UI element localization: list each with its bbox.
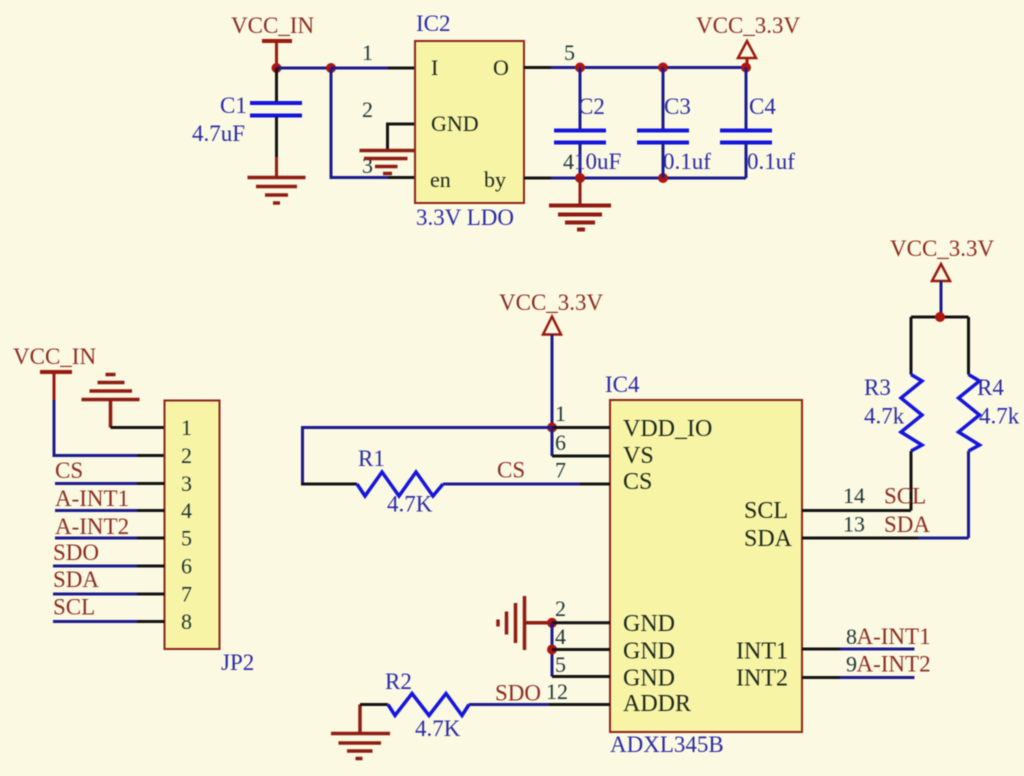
pin number 9 — [846, 652, 857, 677]
wire pin 1 of JP2 — [111, 426, 165, 429]
resistor R2 — [385, 669, 469, 741]
junction — [547, 618, 557, 628]
svg-text:JP2: JP2 — [221, 650, 254, 675]
capacitor C3 — [637, 68, 711, 179]
junction — [575, 63, 585, 73]
label ADXL345B — [610, 732, 724, 757]
svg-text:SDA: SDA — [53, 567, 99, 592]
wire — [469, 703, 549, 706]
wire — [330, 68, 333, 179]
wire pin 2 of IC2 — [388, 124, 416, 149]
junction — [547, 423, 557, 433]
svg-text:6: 6 — [555, 430, 566, 455]
svg-text:C2: C2 — [578, 94, 605, 119]
svg-text:GND: GND — [623, 611, 675, 637]
net label SCL — [53, 595, 95, 620]
svg-text:4: 4 — [181, 498, 192, 523]
svg-text:8: 8 — [846, 624, 857, 649]
junction — [547, 645, 557, 655]
wire pin 8 of JP2 — [53, 620, 165, 623]
svg-text:7: 7 — [181, 582, 192, 607]
svg-text:I: I — [431, 55, 438, 80]
wire pin 1 of IC4 — [552, 426, 610, 429]
svg-text:0.1uf: 0.1uf — [747, 149, 795, 174]
svg-text:A-INT1: A-INT1 — [55, 486, 129, 511]
pin number 5 — [564, 40, 575, 65]
wire pin 8 of IC4 — [802, 648, 915, 651]
junction — [741, 63, 751, 73]
svg-text:5: 5 — [555, 652, 566, 677]
net label A-INT2 — [55, 514, 129, 539]
svg-text:GND: GND — [623, 639, 675, 665]
wire pin 4 of IC4 — [552, 648, 610, 651]
pin number 2 — [362, 97, 373, 122]
wire pin 2 of JP2 — [137, 454, 165, 457]
wire pin 7 of IC4 — [580, 483, 610, 486]
connector JP2 body — [165, 401, 220, 650]
svg-text:1: 1 — [362, 40, 373, 65]
wire pin 12 of IC4 — [549, 703, 610, 706]
net label A-INT2 — [857, 652, 931, 677]
svg-text:VCC_3.3V: VCC_3.3V — [696, 13, 801, 38]
net label SDO — [495, 681, 541, 706]
svg-text:5: 5 — [564, 40, 575, 65]
svg-text:INT2: INT2 — [736, 666, 788, 692]
svg-text:VS: VS — [623, 443, 654, 469]
pin number 1 — [362, 40, 373, 65]
wire pin 2 of IC4 — [552, 621, 610, 624]
svg-text:CS: CS — [497, 458, 525, 483]
svg-text:4.7k: 4.7k — [979, 404, 1020, 429]
wire pin 5 of IC4 — [552, 675, 610, 678]
svg-text:12: 12 — [546, 679, 568, 704]
svg-text:10uF: 10uF — [574, 149, 621, 174]
wire pin 5 of JP2 — [55, 537, 165, 540]
wire — [551, 623, 554, 677]
designator IC4 — [605, 372, 640, 397]
wire pin 5 of IC2 — [524, 66, 551, 69]
wire pin 13 of IC4 — [802, 537, 969, 540]
svg-text:2: 2 — [555, 596, 566, 621]
svg-text:2: 2 — [181, 443, 192, 468]
ground — [248, 178, 306, 204]
pin number 14 — [843, 483, 865, 508]
pin number 6 — [555, 430, 566, 455]
svg-text:VDD_IO: VDD_IO — [623, 416, 712, 442]
pin number 4 — [563, 149, 574, 174]
net label A-INT1 — [55, 486, 129, 511]
svg-text:GND: GND — [623, 666, 675, 692]
junction B — [326, 63, 336, 73]
svg-text:C4: C4 — [749, 94, 776, 119]
svg-text:4.7K: 4.7K — [387, 492, 433, 517]
svg-text:0.1uf: 0.1uf — [663, 149, 711, 174]
ground — [360, 151, 416, 174]
svg-text:1: 1 — [181, 415, 192, 440]
wire — [551, 428, 554, 457]
svg-text:5: 5 — [181, 526, 192, 551]
wire pin 6 of JP2 — [53, 565, 165, 568]
wire pin 6 of IC4 — [552, 455, 610, 458]
net label SCL — [884, 484, 926, 509]
svg-text:CS: CS — [55, 458, 83, 483]
net label A-INT1 — [857, 624, 931, 649]
wire pin 3 of JP2 — [55, 482, 165, 485]
op-amp / regulator IC2 body — [415, 41, 524, 203]
svg-text:A-INT2: A-INT2 — [857, 652, 931, 677]
svg-text:INT1: INT1 — [736, 639, 788, 665]
svg-text:4: 4 — [555, 624, 566, 649]
svg-text:C3: C3 — [664, 94, 691, 119]
capacitor C2 — [554, 68, 621, 179]
svg-text:SCL: SCL — [53, 595, 95, 620]
svg-text:3.3V LDO: 3.3V LDO — [416, 205, 514, 230]
power port VCC_3.3V (middle) — [499, 290, 604, 428]
svg-text:14: 14 — [843, 483, 865, 508]
wire — [303, 428, 553, 485]
net label SDA — [884, 512, 930, 537]
pin number 4 — [555, 624, 566, 649]
svg-text:R4: R4 — [977, 375, 1004, 400]
svg-text:A-INT1: A-INT1 — [857, 624, 931, 649]
svg-text:4: 4 — [563, 149, 574, 174]
svg-text:R1: R1 — [358, 446, 385, 471]
wire — [360, 703, 388, 706]
svg-text:VCC_IN: VCC_IN — [13, 344, 96, 369]
pin number 1 — [555, 401, 566, 426]
wire pin 4 of JP2 — [55, 509, 165, 512]
net label CS — [55, 458, 83, 483]
junction — [575, 173, 585, 183]
svg-text:VCC_IN: VCC_IN — [231, 13, 314, 38]
svg-text:R2: R2 — [385, 669, 412, 694]
capacitor C4 — [720, 68, 795, 179]
junction — [658, 63, 668, 73]
svg-text:C1: C1 — [220, 93, 247, 118]
svg-text:13: 13 — [843, 512, 865, 537]
svg-text:2: 2 — [362, 97, 373, 122]
net label SDA — [53, 567, 99, 592]
svg-text:4.7uF: 4.7uF — [192, 121, 245, 146]
designator JP2 — [221, 650, 254, 675]
wire pin 3 of IC2 — [388, 176, 415, 179]
wire — [443, 483, 580, 486]
designator IC2 — [416, 11, 451, 36]
svg-text:ADDR: ADDR — [623, 691, 691, 717]
pin number 5 — [555, 652, 566, 677]
svg-text:SDA: SDA — [744, 526, 793, 552]
label 3.3V LDO — [416, 205, 514, 230]
svg-text:1: 1 — [555, 401, 566, 426]
ground — [331, 705, 390, 759]
resistor R1 — [357, 446, 443, 517]
wire — [277, 67, 332, 70]
ground — [549, 206, 611, 230]
svg-text:SDO: SDO — [53, 540, 99, 565]
pin number 8 — [846, 624, 857, 649]
svg-text:CS: CS — [623, 469, 652, 495]
svg-text:SCL: SCL — [884, 484, 926, 509]
svg-text:en: en — [430, 167, 451, 192]
svg-text:SDA: SDA — [884, 512, 930, 537]
svg-text:VCC_3.3V: VCC_3.3V — [890, 236, 995, 261]
resistor R4 — [959, 317, 1020, 538]
svg-text:ADXL345B: ADXL345B — [610, 732, 724, 757]
svg-text:8: 8 — [181, 609, 192, 634]
wire pin 1 of IC2 — [388, 67, 415, 70]
svg-text:6: 6 — [181, 554, 192, 579]
wire — [331, 67, 388, 70]
svg-text:9: 9 — [846, 652, 857, 677]
net label SDO — [53, 540, 99, 565]
power port VCC_3.3V (right) — [890, 236, 995, 317]
svg-text:3: 3 — [181, 471, 192, 496]
junction — [658, 173, 668, 183]
wire — [551, 66, 746, 69]
resistor R3 — [864, 317, 922, 511]
ground (sideways) — [498, 596, 552, 650]
junction A — [272, 63, 282, 73]
wire pin 7 of JP2 — [53, 593, 165, 596]
pin number 13 — [843, 512, 865, 537]
svg-text:VCC_3.3V: VCC_3.3V — [499, 290, 604, 315]
wire — [911, 316, 969, 319]
pin number 3 — [362, 153, 373, 178]
wire — [275, 157, 278, 177]
svg-text:GND: GND — [431, 111, 479, 136]
svg-text:A-INT2: A-INT2 — [55, 514, 129, 539]
junction — [935, 312, 945, 322]
IC IC4 body — [610, 400, 802, 732]
svg-text:7: 7 — [555, 458, 566, 483]
svg-text:SDO: SDO — [495, 681, 541, 706]
wire — [579, 178, 582, 204]
wire — [331, 176, 388, 179]
net label CS — [497, 458, 525, 483]
pin number 7 — [555, 458, 566, 483]
svg-text:4.7k: 4.7k — [864, 404, 905, 429]
wire — [551, 177, 746, 180]
capacitor C1 — [192, 68, 302, 157]
svg-text:IC4: IC4 — [605, 372, 640, 397]
power port VCC_IN (left) — [13, 344, 96, 400]
svg-text:IC2: IC2 — [416, 11, 451, 36]
wire pin 4 of IC2 — [524, 177, 551, 180]
wire pin 14 of IC4 — [802, 509, 911, 512]
svg-text:by: by — [484, 167, 506, 192]
svg-text:R3: R3 — [864, 375, 891, 400]
svg-text:SCL: SCL — [744, 498, 788, 524]
ground (inverted) — [82, 375, 140, 428]
svg-text:O: O — [493, 55, 509, 80]
pin number 2 — [555, 596, 566, 621]
power port VCC_IN — [231, 13, 314, 68]
wire pin 9 of IC4 — [802, 676, 915, 679]
pin number 12 — [546, 679, 568, 704]
power port VCC_3.3V — [696, 13, 801, 64]
svg-text:4.7K: 4.7K — [415, 716, 461, 741]
wire — [54, 400, 137, 456]
wire — [301, 483, 357, 486]
